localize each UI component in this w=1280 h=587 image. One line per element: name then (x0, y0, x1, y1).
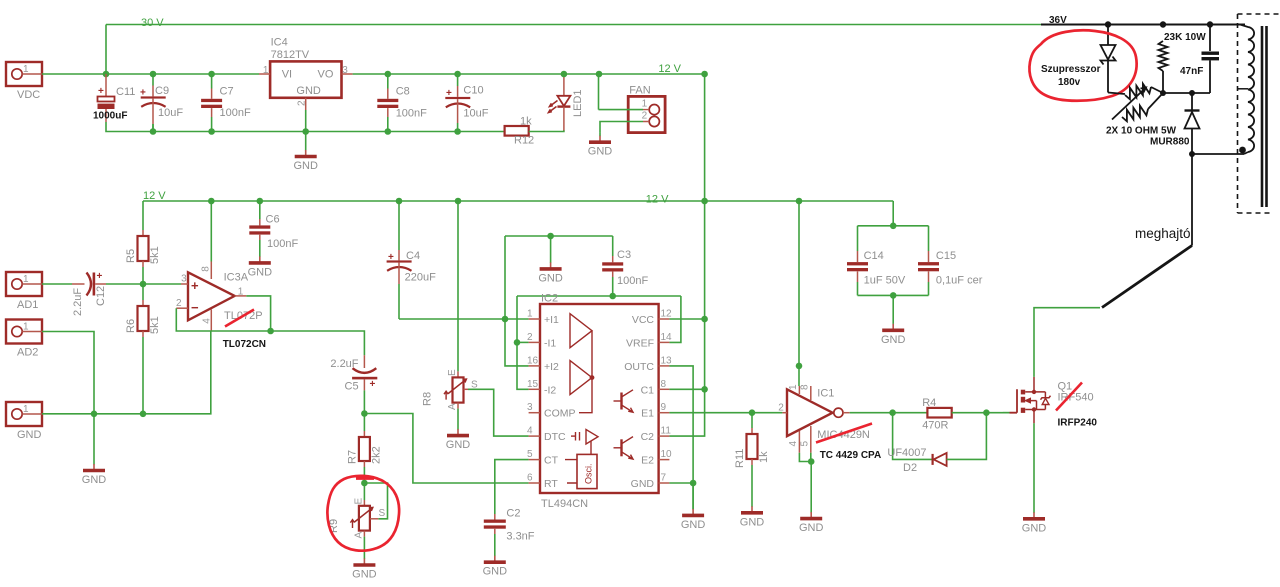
svg-text:+: + (97, 271, 103, 282)
svg-text:COMP: COMP (544, 408, 576, 420)
svg-text:6: 6 (527, 473, 533, 484)
wire source to ground (1033, 423, 1035, 511)
junction IC1 ground (808, 458, 815, 465)
junction C9 ground (150, 128, 157, 135)
wire IC1 pin5 ground (810, 453, 812, 462)
capacitor C15 0.1uF (918, 226, 983, 296)
svg-text:C5: C5 (345, 381, 359, 393)
svg-text:1: 1 (23, 322, 29, 333)
ground symbol C6 (248, 240, 273, 278)
resistor R5 5k1 (125, 201, 161, 267)
svg-text:1: 1 (263, 65, 269, 76)
wire C2 to ground (494, 534, 496, 556)
ground symbol R11 (740, 506, 765, 529)
svg-text:5: 5 (800, 441, 811, 447)
junction VCC (701, 316, 708, 323)
svg-text:7812TV: 7812TV (271, 49, 310, 61)
svg-text:30 V: 30 V (141, 17, 164, 29)
svg-text:+: + (140, 88, 146, 99)
svg-text:A: A (354, 532, 365, 539)
svg-text:8: 8 (201, 266, 212, 272)
svg-text:100nF: 100nF (267, 238, 298, 250)
ground symbol Q1 (1022, 512, 1047, 535)
svg-text:GND: GND (483, 566, 508, 578)
wire AD2 down (42, 332, 94, 414)
svg-text:E2: E2 (641, 455, 654, 467)
svg-text:220uF: 220uF (405, 272, 436, 284)
svg-text:1: 1 (23, 274, 29, 285)
svg-text:2: 2 (527, 332, 533, 343)
wire R4 to gate (952, 412, 1010, 414)
transformer center tap (1238, 88, 1248, 90)
svg-text:3: 3 (342, 65, 348, 76)
svg-text:OUTC: OUTC (624, 361, 654, 373)
ground symbol C14/C15 (881, 324, 906, 346)
svg-text:1: 1 (642, 99, 648, 110)
wire 12V mid rail (143, 200, 893, 202)
svg-text:12: 12 (661, 309, 673, 320)
svg-text:R12: R12 (514, 135, 534, 147)
junction +I1/+I2 tie (502, 316, 509, 323)
wire VREF net right drop (669, 296, 681, 342)
svg-text:AD2: AD2 (17, 347, 38, 359)
wire IC1 out to R4 (850, 412, 928, 414)
junction D2 tap right (983, 409, 990, 416)
IC U2 TL494CN (527, 293, 672, 511)
svg-text:Osci.: Osci. (584, 463, 594, 484)
red strikethrough MIC4429N (816, 424, 872, 443)
svg-text:2: 2 (778, 403, 784, 414)
wire C11 to ground rail (106, 122, 505, 132)
ground symbol IC2 (681, 483, 706, 531)
capacitor C6 (249, 201, 298, 250)
wire IC1 supply (798, 201, 800, 386)
svg-text:GND: GND (588, 146, 613, 158)
svg-text:GND: GND (17, 429, 42, 441)
svg-text:13: 13 (661, 355, 673, 366)
svg-text:+: + (388, 252, 394, 263)
transformer core (1262, 26, 1267, 207)
svg-text:8: 8 (800, 384, 811, 390)
junction D2 tap left (889, 409, 896, 416)
wire 12V output rail (353, 73, 705, 75)
junction 36V 23K (1160, 21, 1166, 27)
wire GND pin7 stub (669, 482, 693, 484)
svg-text:C4: C4 (406, 250, 420, 262)
junction primary bottom (1189, 151, 1195, 157)
rheostat 2x10ohm lower (1122, 93, 1163, 121)
svg-text:VI: VI (282, 69, 292, 81)
svg-text:TC 4429 CPA: TC 4429 CPA (820, 450, 882, 461)
svg-text:2.2uF: 2.2uF (72, 288, 84, 316)
svg-text:3.3nF: 3.3nF (506, 531, 534, 543)
svg-text:2X 10 OHM 5W: 2X 10 OHM 5W (1106, 126, 1177, 137)
svg-text:A: A (447, 403, 458, 410)
ground symbol C2 (483, 556, 508, 578)
wire +I2 riser (505, 236, 529, 366)
svg-text:23K 10W: 23K 10W (1164, 32, 1206, 43)
red strikethrough IRF540 (1056, 383, 1082, 411)
node noninverting input (140, 281, 147, 288)
rheostat 2x10ohm upper (1125, 84, 1151, 100)
connector GND input (6, 402, 42, 441)
wire IC1 ground drop (810, 462, 812, 512)
wire R9 to ground (363, 537, 365, 558)
junction C10 top (454, 71, 461, 78)
diode MUR880 (1185, 93, 1200, 154)
svg-text:GND: GND (82, 474, 107, 486)
resistor R12 1k (505, 116, 535, 147)
svg-text:2.2uF: 2.2uF (330, 358, 358, 370)
svg-text:2: 2 (297, 100, 308, 106)
junction 36V zener (1105, 21, 1111, 27)
junction 12V corner (701, 71, 708, 78)
svg-text:15: 15 (527, 379, 539, 390)
junction AD2/ground (91, 411, 98, 418)
svg-text:VCC: VCC (632, 314, 655, 326)
transformer coil bottom lead (1244, 152, 1248, 154)
svg-text:4: 4 (788, 441, 799, 447)
svg-text:C9: C9 (155, 85, 169, 97)
svg-text:100nF: 100nF (220, 107, 251, 119)
wire R12 to LED (529, 130, 564, 132)
junction snubber left (1160, 90, 1166, 96)
junction C6 top (257, 198, 264, 205)
svg-text:10: 10 (661, 449, 673, 460)
connector AD1 (6, 272, 42, 311)
wire -I1 stub (517, 341, 529, 343)
wire R8 wiper to DTC (468, 389, 529, 436)
wire primary bottom (black) (1192, 153, 1244, 155)
svg-text:1k: 1k (758, 451, 770, 463)
junction IC1 supply mid (796, 363, 803, 370)
winding polarity dot (1239, 147, 1246, 154)
svg-text:C15: C15 (936, 250, 956, 262)
junction op-amp supply (208, 198, 215, 205)
svg-text:1: 1 (23, 404, 29, 415)
capacitor 47nF (1202, 25, 1220, 94)
svg-text:R7: R7 (347, 450, 359, 464)
svg-text:+: + (191, 278, 199, 293)
svg-text:C3: C3 (617, 249, 631, 261)
transformer boundary (dashed) (1238, 14, 1280, 213)
capacitor C8 (377, 74, 427, 132)
wire 36V line (black) (1041, 24, 1245, 26)
svg-text:10uF: 10uF (463, 108, 488, 120)
svg-text:1: 1 (527, 309, 533, 320)
wire VDC to VIN rail (42, 73, 259, 75)
junction C8 ground (385, 128, 392, 135)
svg-text:1000uF: 1000uF (93, 111, 127, 122)
svg-text:180v: 180v (1058, 77, 1081, 88)
svg-text:C8: C8 (396, 86, 410, 98)
svg-text:8: 8 (661, 379, 667, 390)
junction cap pair bottom (890, 292, 897, 299)
junction LED supply (561, 71, 568, 78)
svg-text:1k: 1k (520, 116, 532, 128)
regulator IC4 7812TV (259, 37, 353, 111)
wire C4 to pin1 line (399, 318, 529, 320)
svg-text:+: + (98, 86, 104, 97)
junction C1 (701, 386, 708, 393)
svg-text:2: 2 (642, 111, 648, 122)
svg-text:C12: C12 (95, 286, 107, 306)
wire C5 to node A (363, 390, 365, 413)
resistor 23K 10W (1159, 41, 1168, 93)
wire AD1 to C12 (42, 283, 72, 285)
svg-text:R8: R8 (422, 392, 434, 406)
wire R6 to ground rail (142, 337, 144, 414)
svg-text:C1: C1 (641, 384, 655, 396)
junction R8 top (455, 198, 462, 205)
svg-text:GND: GND (446, 439, 471, 451)
op-amp IC3A (176, 262, 249, 332)
junction C7 top (208, 71, 215, 78)
wire E1 to driver (669, 412, 782, 414)
connector VDC (6, 62, 42, 101)
svg-text:1: 1 (238, 287, 244, 298)
svg-text:GND: GND (538, 272, 563, 284)
capacitor C2 3.3nF (484, 508, 535, 543)
svg-text:GND: GND (293, 160, 318, 172)
capacitor C12 2.2uF (72, 271, 107, 316)
svg-text:GND: GND (352, 569, 377, 581)
junction VIN/30V/C11 (103, 71, 110, 78)
svg-text:VO: VO (318, 69, 334, 81)
resistor R6 5k1 (125, 284, 161, 337)
wire cap pair bottom tie (858, 294, 929, 296)
svg-text:−: − (191, 300, 199, 315)
svg-text:GND: GND (799, 522, 824, 534)
wire 30V drop to input node (105, 25, 107, 75)
svg-text:E: E (354, 498, 365, 505)
svg-text:10uF: 10uF (158, 107, 183, 119)
svg-text:4: 4 (201, 318, 212, 324)
svg-text:Szupresszor: Szupresszor (1041, 64, 1101, 75)
svg-text:11: 11 (661, 426, 672, 437)
capacitor C5 2.2uF (330, 355, 377, 392)
capacitor C3 100nF (602, 236, 648, 287)
svg-text:IC1: IC1 (817, 388, 834, 400)
wire op-amp output (246, 296, 270, 331)
junction regulator ground (302, 128, 309, 135)
transformer primary coil (1240, 25, 1254, 153)
svg-text:R4: R4 (922, 397, 936, 409)
svg-text:14: 14 (661, 332, 673, 343)
svg-text:2: 2 (176, 298, 182, 309)
junction 12V vertical crossing (701, 198, 708, 205)
svg-text:IRFP240: IRFP240 (1058, 418, 1098, 429)
wire C12 to node (106, 283, 181, 285)
svg-text:1: 1 (23, 64, 29, 75)
capacitor C10 (445, 74, 488, 132)
junction C4 top (396, 198, 403, 205)
capacitor C9 (140, 74, 183, 132)
svg-text:-I2: -I2 (544, 384, 556, 396)
svg-text:100nF: 100nF (396, 108, 427, 120)
svg-text:S: S (379, 508, 386, 519)
svg-text:CT: CT (544, 455, 559, 467)
wire rail to C14/C15 (892, 201, 894, 226)
svg-text:7: 7 (661, 473, 667, 484)
wire VREF net (517, 295, 681, 297)
wire FAN pin1 to 12V (599, 109, 644, 111)
svg-text:IC3A: IC3A (224, 272, 249, 284)
wire cap pair to ground (892, 295, 894, 324)
wire R8 to ground (457, 409, 459, 429)
ground symbol IC4 (293, 149, 318, 172)
transistor Q1 (1003, 377, 1051, 423)
svg-text:12 V: 12 V (646, 194, 669, 206)
svg-text:4: 4 (527, 426, 533, 437)
capacitor C7 (201, 74, 251, 132)
svg-text:0,1uF cer: 0,1uF cer (936, 275, 983, 287)
wire R7 to node B (363, 467, 365, 483)
svg-text:VDC: VDC (17, 89, 40, 101)
svg-text:+: + (370, 379, 376, 390)
svg-text:+I2: +I2 (544, 361, 559, 373)
svg-text:DTC: DTC (544, 431, 566, 443)
junction top line ground tap (547, 233, 554, 240)
wire FAN pin1 riser (598, 74, 600, 110)
svg-text:GND: GND (681, 519, 706, 531)
wire feedback (176, 308, 270, 331)
svg-text:C14: C14 (864, 250, 884, 262)
junction -I1 tap (514, 339, 521, 346)
svg-text:5: 5 (527, 449, 533, 460)
ground symbol input (82, 414, 107, 486)
svg-text:12 V: 12 V (143, 190, 166, 202)
svg-text:3: 3 (527, 402, 533, 413)
trimmer R9 (328, 483, 386, 539)
svg-text:FAN: FAN (629, 85, 650, 97)
wire OUTC down to ground (669, 366, 693, 510)
svg-text:47nF: 47nF (1180, 66, 1203, 77)
driver IC1 (778, 384, 850, 453)
capacitor C11 (98, 74, 136, 122)
wire cap pair top tie (858, 225, 929, 227)
wire drive diagonal (black) (1102, 246, 1192, 308)
LED LED1 (549, 74, 585, 130)
svg-text:GND: GND (1022, 522, 1047, 534)
capacitor C4 220uF (387, 201, 436, 319)
red circle around Szupresszor (1029, 30, 1136, 100)
svg-text:+I1: +I1 (544, 314, 559, 326)
svg-text:R11: R11 (734, 449, 746, 468)
svg-text:VREF: VREF (626, 337, 654, 349)
junction cap pair top (890, 223, 897, 230)
wire drain riser (1034, 308, 1100, 377)
wire C1 to 12V (669, 388, 704, 390)
svg-text:GND: GND (740, 516, 765, 528)
svg-text:TL494CN: TL494CN (541, 498, 588, 510)
wire 12V vertical feed (669, 74, 704, 436)
junction C8 top (385, 71, 392, 78)
junction R6 ground (140, 411, 147, 418)
wire VCC to 12V (669, 318, 704, 320)
svg-text:16: 16 (527, 355, 539, 366)
junction C7 ground (208, 128, 215, 135)
svg-text:GND: GND (631, 478, 655, 490)
wire R5 to node (142, 267, 144, 284)
ground symbol R9 (352, 558, 377, 581)
wire op-amp supply pin8 (210, 201, 212, 262)
wire C9 bottom (152, 124, 154, 132)
rheostat arrow (1112, 88, 1146, 120)
capacitor C14 1uF 50V (847, 226, 906, 296)
wire node A to RT (364, 414, 528, 484)
junction feedback/output (267, 328, 274, 335)
svg-text:IC2: IC2 (541, 293, 558, 305)
svg-text:MUR880: MUR880 (1150, 137, 1190, 148)
junction R11 top (749, 409, 756, 416)
diode D2 UF4007 (887, 413, 986, 474)
svg-text:C2: C2 (506, 508, 520, 520)
svg-text:RT: RT (544, 478, 558, 490)
svg-text:E: E (447, 369, 458, 376)
svg-text:meghajtó: meghajtó (1135, 226, 1191, 241)
svg-text:C11: C11 (116, 86, 135, 98)
wire snubber node (black) (1108, 87, 1210, 94)
svg-text:470R: 470R (922, 420, 948, 432)
svg-text:9: 9 (661, 402, 667, 413)
svg-text:R5: R5 (125, 249, 137, 263)
svg-text:LED1: LED1 (572, 89, 584, 117)
resistor R7 2k2 (347, 414, 383, 468)
svg-text:2k2: 2k2 (371, 446, 383, 464)
svg-text:AD1: AD1 (17, 299, 38, 311)
wire input ground rail (42, 331, 211, 414)
wire 30V rail (106, 24, 1044, 26)
red strikethrough TL072P (225, 310, 254, 327)
connector FAN (628, 85, 665, 133)
zener diode Szupresszor 180v (1101, 25, 1116, 93)
svg-text:UF4007: UF4007 (887, 447, 926, 459)
svg-text:R6: R6 (125, 319, 137, 333)
svg-text:GND: GND (296, 85, 321, 97)
svg-text:C2: C2 (641, 431, 655, 443)
resistor R11 1k (734, 413, 770, 468)
wire ground top line (505, 235, 613, 237)
red circle around R9 (327, 476, 399, 551)
svg-text:C10: C10 (463, 85, 483, 97)
svg-text:12 V: 12 V (658, 63, 681, 75)
wire drive drop (black) (1191, 154, 1193, 246)
ground symbol top line (538, 236, 563, 284)
junction C9 top (150, 71, 157, 78)
svg-text:E1: E1 (641, 408, 654, 420)
junction FAN supply (596, 71, 603, 78)
wire VREF net left drop (517, 296, 529, 389)
svg-text:GND: GND (248, 266, 273, 278)
wire R11 to ground (751, 465, 753, 506)
trimmer R8 (422, 201, 479, 410)
svg-text:C6: C6 (266, 213, 280, 225)
ground symbol R8 (446, 429, 471, 451)
svg-text:1: 1 (788, 384, 799, 390)
wire FAN pin2 to ground (600, 122, 643, 133)
svg-text:5k1: 5k1 (149, 316, 161, 334)
svg-text:GND: GND (881, 334, 906, 346)
wire C3 bottom to VREF line (612, 277, 614, 296)
junction IC1 supply (796, 198, 803, 205)
junction 36V 47nF (1207, 21, 1213, 27)
wire node B wiper loop (364, 483, 387, 519)
junction snubber diode (1189, 90, 1195, 96)
wire CT to C2 (495, 460, 529, 514)
resistor R4 470R (922, 397, 952, 432)
svg-text:IC4: IC4 (271, 37, 288, 49)
